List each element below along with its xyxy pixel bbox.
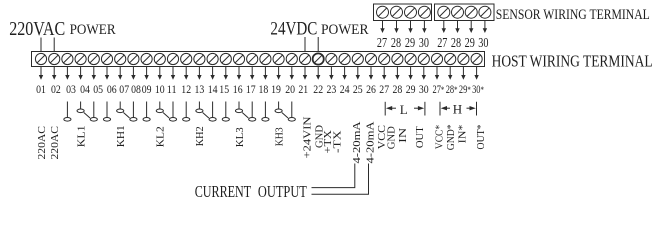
svg-text:KH3: KH3 [273,127,285,146]
svg-text:19: 19 [271,82,281,96]
host terminal 03 arrow [65,67,69,80]
host terminal 23 arrow [329,67,333,80]
host terminal 08 screw [128,53,139,64]
svg-text:30*: 30* [472,82,484,96]
host terminal 28 screw [392,53,403,64]
sensor terminal block B outline [435,4,495,21]
host terminal 10 arrow [158,67,162,80]
svg-text:30: 30 [478,35,489,50]
svg-text:220AC: 220AC [36,126,48,160]
svg-text:24: 24 [340,82,350,96]
svg-text:24VDC: 24VDC [270,19,317,40]
svg-text:HOST WIRING TERMINAL: HOST WIRING TERMINAL [492,51,653,70]
relay contact KL1 lever [84,113,90,119]
svg-text:OUT*: OUT* [475,125,487,150]
svg-text:220VAC: 220VAC [9,19,65,40]
sensor block A terminal 29 screw [405,6,417,18]
svg-text:28: 28 [393,82,403,96]
svg-text:VCC*: VCC* [433,125,445,149]
svg-text:18: 18 [259,82,269,96]
svg-text:SENSOR WIRING TERMINAL: SENSOR WIRING TERMINAL [496,7,650,23]
relay contact KH2 terminal 13 lug [196,102,203,113]
host terminal 29* arrow [461,67,465,80]
host terminal 23 screw [326,53,337,64]
host terminal 17 screw [247,53,258,64]
host terminal 28* screw [445,53,456,64]
host terminal 01 arrow [39,67,43,80]
sensor block A terminal 30 arrow [422,21,426,34]
svg-text:09: 09 [142,82,152,96]
sensor block A terminal 28 screw [391,6,403,18]
host terminal 09 arrow [144,67,148,80]
host terminal 29 arrow [408,67,412,80]
host terminal 04 arrow [78,67,82,80]
relay contact KH2 terminal 14 lug [209,102,216,122]
svg-text:30: 30 [419,35,430,50]
host terminal 30* arrow [474,67,478,80]
host terminal 24 arrow [342,67,346,80]
wire 24VDC to terminal 22 [317,37,319,52]
sensor block B terminal 28 screw [452,6,464,18]
sensor block B terminal 28 arrow [455,21,459,34]
svg-text:11: 11 [167,82,177,96]
host terminal 06 screw [101,53,112,64]
svg-text:07: 07 [119,82,129,96]
host terminal 19 screw [273,53,284,64]
svg-text:H: H [453,102,462,117]
host terminal 14 arrow [210,67,214,80]
svg-text:OUT: OUT [414,126,426,148]
host terminal 08 arrow [131,67,135,80]
host terminal 16 screw [233,53,244,64]
svg-text:29: 29 [405,35,416,50]
svg-text:30: 30 [419,82,429,96]
svg-text:POWER: POWER [70,22,116,38]
svg-text:KL3: KL3 [234,127,246,147]
host terminal 30* screw [471,53,482,64]
relay contact KL2 lever [163,113,169,119]
relay contact KL3 lever [242,113,248,119]
host terminal 11 screw [167,53,178,64]
svg-text:KH2: KH2 [194,126,206,146]
host terminal 24 screw [339,53,350,64]
host terminal 29 screw [405,53,416,64]
svg-text:29*: 29* [459,82,471,96]
terminal 03 wire lug [64,102,71,122]
host terminal 03 screw [62,53,73,64]
svg-text:POWER: POWER [321,22,369,38]
svg-text:16: 16 [233,82,243,96]
sensor block A terminal 27 arrow [380,21,384,34]
host terminal 15 arrow [224,67,228,80]
svg-text:28: 28 [391,35,402,50]
wire current output to terminal 25 label [312,164,355,188]
svg-text:27: 27 [379,82,389,96]
host terminal 05 arrow [92,67,96,80]
host terminal 25 screw [352,53,363,64]
sensor terminal block A outline [374,4,432,21]
host terminal 07 screw [115,53,126,64]
host terminal 21 arrow [303,67,307,80]
svg-text:14: 14 [208,82,218,96]
relay contact KL1 terminal 05 lug [90,102,97,122]
svg-text:06: 06 [107,82,117,96]
sensor block A terminal 28 arrow [394,21,398,34]
svg-text:25: 25 [353,82,363,96]
svg-text:4-20mA: 4-20mA [351,121,363,163]
host terminal 29* screw [458,53,469,64]
svg-text:GND: GND [385,126,397,149]
host terminal 19 arrow [276,67,280,80]
dimension bracket H (terminals 27*-30*) [440,102,477,117]
host terminal 14 screw [207,53,218,64]
host terminal 01 screw [35,53,46,64]
relay contact KH3 terminal 19 lug [275,102,282,113]
host terminal 28* arrow [448,67,452,80]
host terminal 12 arrow [184,67,188,80]
sensor block A terminal 30 screw [418,6,430,18]
terminal 12 wire lug [183,102,190,122]
sensor block B terminal 27 screw [438,6,450,18]
terminal 06 wire lug [103,102,110,122]
relay contact KH3 lever [282,113,288,119]
relay contact KL3 terminal 16 lug [235,102,242,113]
sensor block B terminal 27 arrow [442,21,446,34]
host terminal 02 arrow [52,67,56,80]
terminal 15 wire lug [222,102,229,122]
svg-text:04: 04 [80,82,90,96]
wire 24VDC to terminal 21 [304,37,306,52]
relay contact KH2 lever [203,113,209,119]
terminal 18 wire lug [262,102,269,122]
host terminal 30 screw [418,53,429,64]
relay contact KH1 terminal 08 lug [130,102,137,122]
svg-text:27*: 27* [433,82,445,96]
relay contact KL3 terminal 17 lug [249,102,256,122]
svg-text:CURRENT: CURRENT [195,182,252,201]
sensor block B terminal 29 screw [465,6,477,18]
host terminal 27 arrow [382,67,386,80]
svg-text:02: 02 [51,82,61,96]
svg-text:22: 22 [313,82,323,96]
svg-text:08: 08 [131,82,141,96]
terminal 09 wire lug [143,102,150,122]
svg-text:10: 10 [155,82,165,96]
host terminal 21 screw [299,53,310,64]
svg-text:4-20mA: 4-20mA [365,121,377,163]
svg-text:15: 15 [219,82,229,96]
host terminal 04 screw [75,53,86,64]
host terminal 02 screw [49,53,60,64]
svg-text:KL1: KL1 [75,125,87,147]
host terminal 22 arrow [316,67,320,80]
dimension bracket L (terminals 27-30) [385,102,425,117]
host terminal 18 arrow [263,67,267,80]
host terminal 09 screw [141,53,152,64]
host terminal 07 arrow [118,67,122,80]
relay contact KH1 lever [123,113,129,119]
relay contact KL1 terminal 04 lug [77,102,84,113]
svg-text:20: 20 [285,82,295,96]
svg-text:23: 23 [327,82,337,96]
svg-text:29: 29 [465,35,476,50]
host terminal 27* arrow [435,67,439,80]
relay contact KL2 terminal 10 lug [156,102,163,113]
label 24VDC POWER [270,19,368,40]
svg-text:13: 13 [195,82,205,96]
host terminal 26 screw [365,53,376,64]
host terminal 27* screw [431,53,442,64]
host terminal 17 arrow [250,67,254,80]
svg-text:17: 17 [246,82,256,96]
svg-text:21: 21 [298,82,308,96]
svg-text:+24VIN: +24VIN [302,116,314,158]
relay contact KH3 terminal 20 lug [288,102,295,122]
host terminal 06 arrow [105,67,109,80]
relay contact KL2 terminal 11 lug [169,102,176,122]
svg-text:27: 27 [377,35,388,50]
host terminal strip outline [32,52,485,67]
svg-text:-TX: -TX [331,130,343,153]
host terminal 16 arrow [237,67,241,80]
svg-text:01: 01 [36,82,46,96]
wire 220VAC to terminal 02 [53,38,55,52]
svg-text:IN: IN [397,128,409,143]
host terminal 26 arrow [369,67,373,80]
sensor block B terminal 30 arrow [483,21,487,34]
host terminal 20 arrow [290,67,294,80]
sensor block B terminal 30 screw [479,6,491,18]
svg-text:29: 29 [406,82,416,96]
svg-text:L: L [400,102,408,117]
host terminal 28 arrow [395,67,399,80]
host terminal 27 screw [379,53,390,64]
host terminal 05 screw [88,53,99,64]
label 220VAC POWER [9,19,116,40]
svg-text:26: 26 [366,82,376,96]
svg-text:12: 12 [181,82,191,96]
svg-text:OUTPUT: OUTPUT [258,182,307,201]
host terminal 25 arrow [356,67,360,80]
svg-text:GND*: GND* [445,124,457,150]
host terminal 13 arrow [197,67,201,80]
svg-text:KH1: KH1 [115,125,127,147]
svg-text:28*: 28* [446,82,458,96]
svg-text:28: 28 [451,35,462,50]
sensor block B terminal 29 arrow [469,21,473,34]
svg-text:27: 27 [437,35,448,50]
host terminal 15 screw [220,53,231,64]
host terminal 10 screw [154,53,165,64]
svg-text:IN*: IN* [456,125,468,144]
host terminal 13 screw [194,53,205,64]
host terminal 11 arrow [171,67,175,80]
sensor block A terminal 27 screw [377,6,389,18]
host terminal 22 screw [313,53,324,64]
host terminal 20 screw [286,53,297,64]
label CURRENT OUTPUT [195,182,308,201]
wire current output to terminal 26 label [312,164,369,195]
svg-text:220AC: 220AC [49,126,61,160]
wire 220VAC to terminal 01 [40,38,42,52]
host terminal 18 screw [260,53,271,64]
host terminal 30 arrow [422,67,426,80]
sensor block A terminal 29 arrow [408,21,412,34]
svg-text:KL2: KL2 [155,126,167,147]
svg-text:03: 03 [66,82,76,96]
host terminal 12 screw [181,53,192,64]
svg-text:05: 05 [93,82,103,96]
relay contact KH1 terminal 07 lug [117,102,124,113]
